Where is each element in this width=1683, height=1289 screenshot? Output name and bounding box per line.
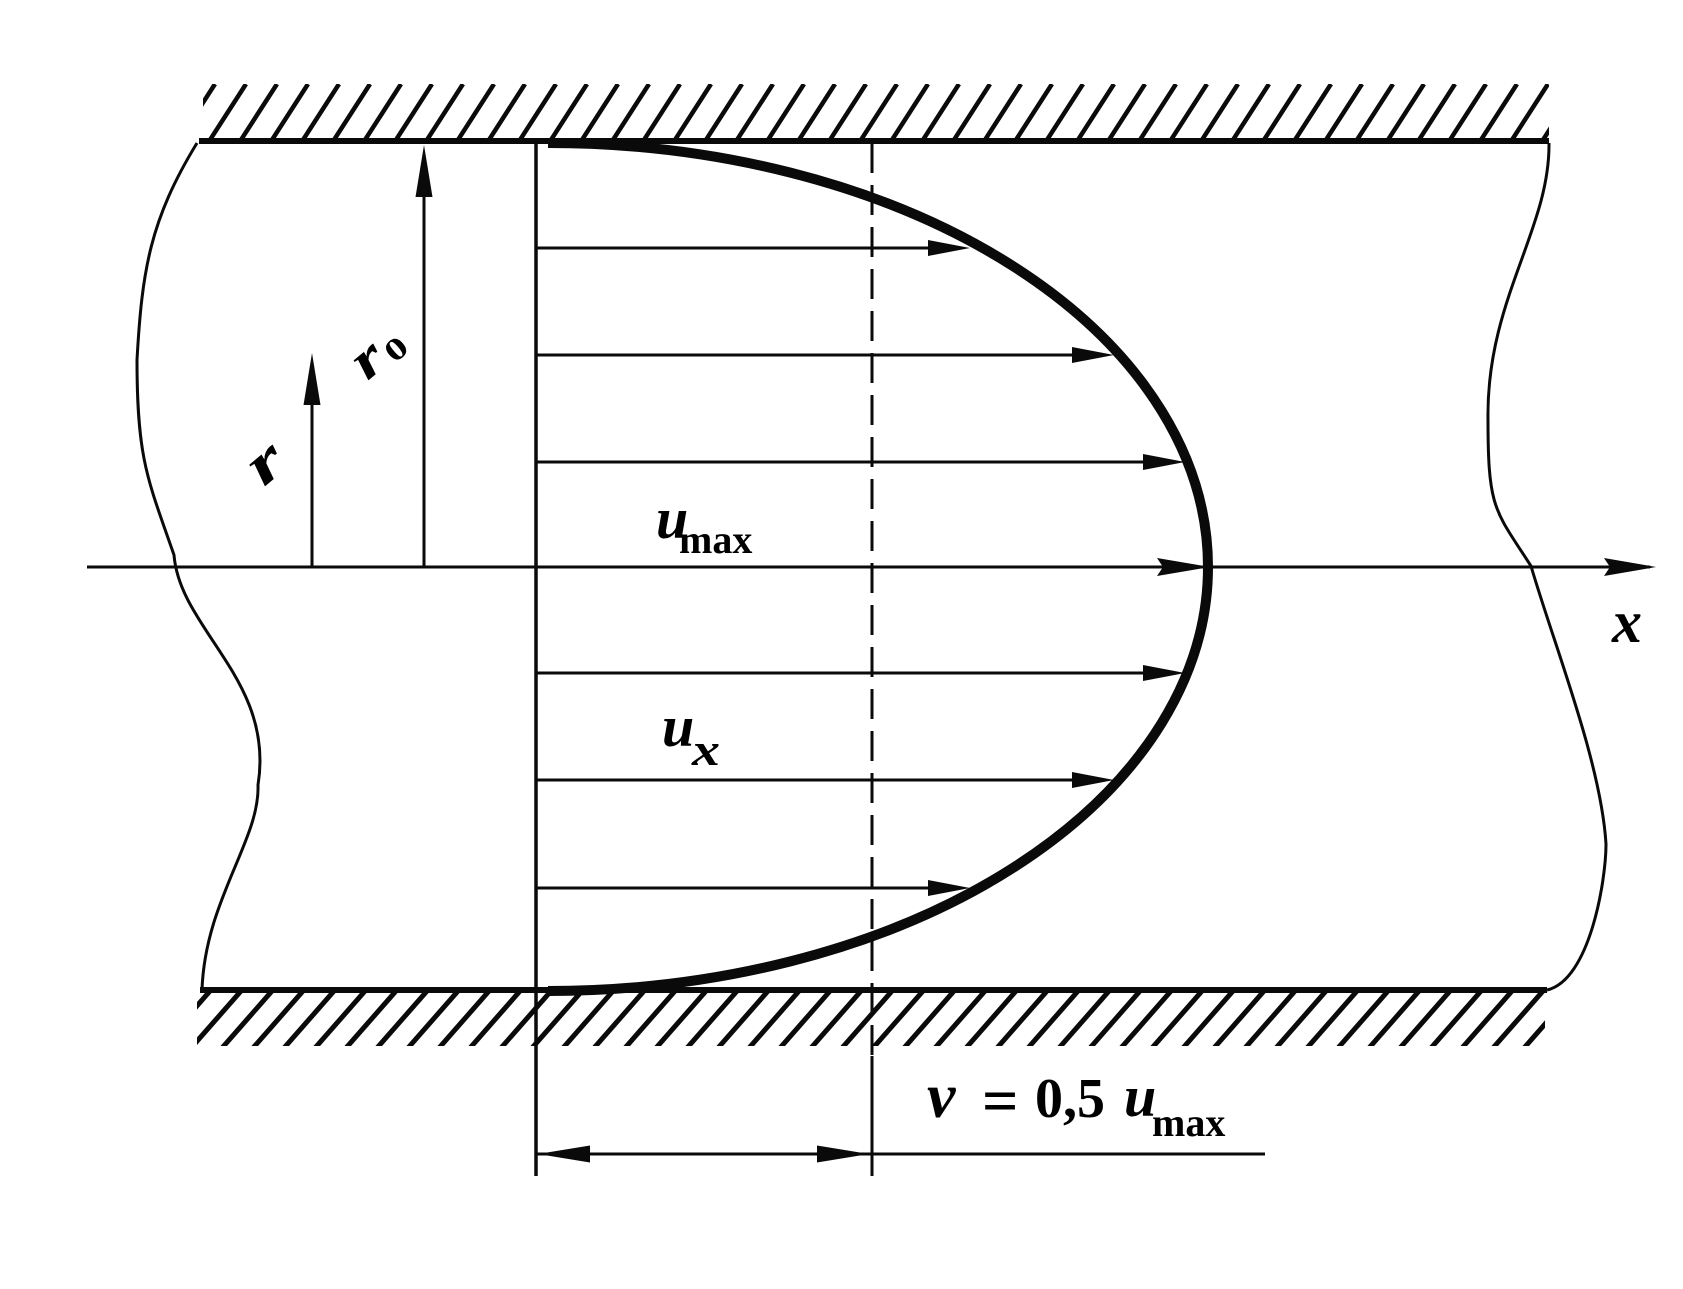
velocity vector arrow 6 xyxy=(536,887,936,890)
right wavy break line xyxy=(1488,143,1606,990)
top pipe wall line xyxy=(199,138,1549,144)
x-axis centerline xyxy=(87,566,1650,569)
svg-text:x: x xyxy=(691,724,720,775)
dimension left arrowhead xyxy=(538,1146,590,1163)
label r xyxy=(230,425,298,497)
dashed line at v = 0.5 u_max xyxy=(871,143,874,1176)
svg-text:max: max xyxy=(679,517,752,562)
svg-text:u: u xyxy=(662,694,694,759)
bottom pipe wall hatching xyxy=(160,991,1574,1048)
x-axis mid arrowhead at profile apex xyxy=(1157,558,1210,576)
velocity vector arrow 2 xyxy=(536,354,1076,357)
svg-text:0,5: 0,5 xyxy=(1035,1068,1105,1130)
x-axis end arrowhead xyxy=(1604,558,1656,576)
svg-text:max: max xyxy=(1152,1100,1225,1145)
parabolic velocity profile curve xyxy=(548,143,1208,991)
svg-text:x: x xyxy=(1611,589,1642,655)
velocity vector arrow 4 xyxy=(536,672,1147,675)
dimension line for v = 0.5 u_max xyxy=(536,1153,1265,1156)
label r0 xyxy=(336,310,415,390)
velocity vector arrow 1 xyxy=(536,247,936,250)
svg-text:v: v xyxy=(927,1060,956,1131)
velocity vector arrow 5 xyxy=(536,779,1076,782)
r0 radius arrow xyxy=(423,190,426,567)
dimension right arrowhead xyxy=(817,1146,869,1163)
svg-text:=: = xyxy=(982,1065,1018,1136)
bottom pipe wall line xyxy=(200,987,1547,993)
r radius arrow xyxy=(311,400,314,567)
velocity vector arrow 3 xyxy=(536,461,1147,464)
velocity profile base line xyxy=(534,141,538,1176)
left wavy break line xyxy=(137,143,260,990)
